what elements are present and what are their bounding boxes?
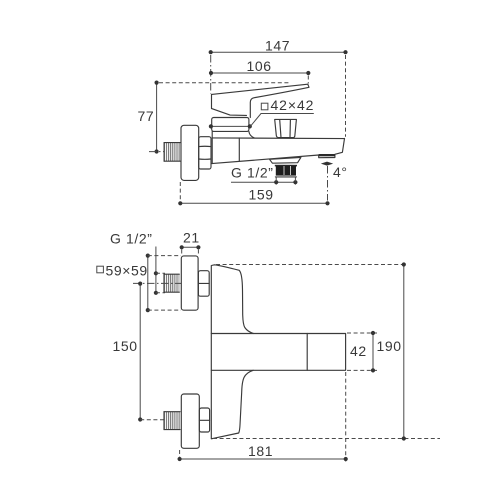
dim 150 bottom dash [140,419,164,421]
dim 159 line [178,201,329,205]
svg-text:42×42: 42×42 [271,97,315,113]
hex nut (side view) [199,137,211,169]
G1/2 outlet thread (dark) [275,165,297,177]
dim 181 line [178,457,348,461]
dim 59 dashes [148,256,181,311]
corner curve cap to spout [249,131,254,138]
top wall thread (front view) [164,274,179,292]
svg-text:190: 190 [377,338,402,354]
extensions 21 [182,250,199,256]
extension 181 right [345,372,347,462]
dim 150 line [138,282,142,422]
dim 190 dashes bottom [213,438,440,440]
cartridge cap (rounded) [212,118,249,132]
dim 147 line [209,50,348,54]
svg-text:106: 106 [247,58,272,74]
lever underside [212,109,247,116]
extension line lever tip (x308) [307,76,309,84]
wall thread (side view) [164,142,181,161]
wall flange (side view) [181,125,199,180]
lever left edge [211,94,213,108]
svg-text:59×59: 59×59 [106,263,148,279]
dim 42 line [371,331,375,373]
dim 42 dashes [347,333,377,370]
bottom wall flange (front view) [181,394,199,448]
svg-text:147: 147 [265,38,290,54]
extension thread edges [276,178,295,185]
spout tip and bottom with aerator [212,139,345,164]
body divider x239 [238,138,240,161]
extension line left (dash-dot x211) [210,55,212,94]
body outline (front view) [211,265,345,439]
G1/2 dim dashes [156,273,165,293]
svg-text:21: 21 [183,230,200,246]
extension line top (y83) [159,82,289,84]
svg-text:G 1/2”: G 1/2” [231,165,274,181]
G1/2 leader line with dots [231,180,298,184]
svg-text:159: 159 [249,187,274,203]
dim 77 line [155,81,159,154]
dim 190 dashes top [216,264,404,266]
spout top edge [212,137,344,140]
dim 190 line [402,262,406,440]
label square 59x59 [97,266,104,273]
svg-text:150: 150 [113,338,138,354]
svg-text:42: 42 [350,343,367,359]
svg-text:77: 77 [138,108,155,124]
top hex nut (front view) [198,271,209,297]
4 deg extension dashed [327,166,329,201]
extension flange bottom [179,182,181,201]
top wall flange (front view) [181,256,198,310]
dim 59 line [146,254,150,313]
diverter knob [275,119,297,137]
dim 106 line [209,71,311,75]
svg-text:181: 181 [248,443,273,459]
spout rect lines (front view) [211,334,307,371]
extension line right (dash x345.5) [345,55,347,137]
top centerline [133,282,181,284]
lever handle (side view) [212,84,309,117]
bottom wall thread (front view) [164,412,180,430]
leader 42x42 [250,114,313,127]
body left edge below cap [211,131,213,163]
centerline wall connection (y151.6) [149,151,165,153]
extension 181 left [179,450,181,462]
G1/2 dim dots [154,271,158,295]
bottom hex nut (front view) [199,408,209,432]
diverter inner lines [280,120,291,138]
svg-text:4°: 4° [333,164,348,180]
dim 21 line [180,245,201,249]
aerator dark band [319,154,335,156]
label square 42x42 [261,103,268,110]
dim 42 internal line with dots [209,124,252,128]
svg-text:G 1/2”: G 1/2” [110,231,153,247]
G1/2 leader vertical [155,247,157,293]
outlet collar under spout [270,157,301,163]
4 deg marker arrows [321,162,333,166]
